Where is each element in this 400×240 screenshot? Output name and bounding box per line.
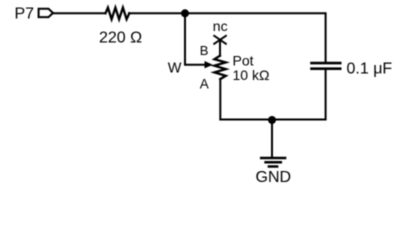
svg-text:GND: GND xyxy=(256,169,292,186)
svg-text:220 Ω: 220 Ω xyxy=(99,29,142,46)
svg-text:P7: P7 xyxy=(15,6,35,23)
svg-text:10 kΩ: 10 kΩ xyxy=(233,67,270,83)
svg-text:A: A xyxy=(200,77,209,92)
svg-text:B: B xyxy=(200,43,209,58)
svg-text:0.1 μF: 0.1 μF xyxy=(347,60,393,77)
svg-text:nc: nc xyxy=(213,18,228,34)
svg-text:W: W xyxy=(168,60,182,76)
